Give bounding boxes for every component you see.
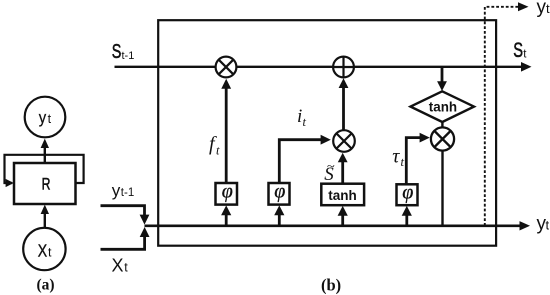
svg-text:t-1: t-1: [121, 187, 134, 199]
svg-text:φ: φ: [274, 181, 285, 203]
multiply node on S line (forget gate): [216, 57, 237, 78]
svg-text:X: X: [38, 242, 48, 261]
svg-text:(a): (a): [37, 277, 55, 294]
svg-text:t: t: [216, 144, 220, 158]
multiply node 2 (input x candidate): [333, 130, 355, 152]
multiply node 3 (output): [431, 127, 454, 150]
wire diamond to multiply3: [441, 122, 443, 128]
wire tau_t arrow from phi3 to multiply3: [406, 138, 420, 184]
svg-text:R: R: [42, 176, 51, 194]
tanh diamond (output squash): [411, 91, 475, 122]
LSTM cell box: [158, 20, 496, 246]
svg-text:t: t: [48, 112, 52, 126]
svg-text:X: X: [112, 256, 124, 276]
wire multiply3 down to output line: [441, 151, 443, 226]
svg-text:t: t: [546, 218, 550, 233]
svg-text:t-1: t-1: [122, 50, 135, 62]
svg-text:y: y: [39, 110, 47, 128]
svg-text:tanh: tanh: [328, 188, 357, 203]
wire arrow bus to phi1: [225, 214, 228, 226]
svg-text:S: S: [112, 40, 122, 63]
wire i_t arrow from phi2 to multiply 2: [279, 140, 321, 183]
svg-text:(b): (b): [321, 276, 341, 295]
svg-text:y: y: [537, 0, 547, 18]
phi box 2 (input gate): [269, 183, 290, 205]
tanh box (candidate): [321, 184, 364, 206]
svg-text:~: ~: [327, 159, 335, 173]
wire S line: [115, 66, 524, 68]
wire arrow bus to phi2: [278, 214, 281, 226]
wire input yt-1: [101, 206, 145, 215]
phi box 1 (forget gate): [216, 183, 238, 205]
feedback loop wire around R: [5, 155, 84, 183]
wire input bus to yt output arrow: [145, 225, 522, 228]
wire arrow tanh box up to multiply2: [341, 161, 344, 184]
wire arrow Xt to R: [44, 212, 46, 228]
wire arrow R to yt: [44, 146, 46, 163]
wire f_t arrow up to multiply: [225, 88, 228, 183]
block R: [14, 163, 76, 204]
svg-text:i: i: [297, 106, 302, 127]
wire arrow multiply2 up to add: [342, 87, 345, 130]
node Xt circle (a): [23, 228, 65, 270]
svg-text:y: y: [112, 181, 121, 200]
wire arrow bus to tanh box: [341, 215, 344, 226]
svg-text:t: t: [546, 1, 550, 16]
svg-text:tanh: tanh: [429, 100, 457, 115]
node yt circle (a): [25, 97, 66, 138]
wire input Xt: [101, 237, 145, 250]
svg-text:S: S: [513, 39, 523, 62]
svg-text:φ: φ: [402, 182, 413, 204]
wire arrow bus to phi3: [405, 215, 408, 226]
svg-text:t: t: [124, 261, 128, 275]
wire dashed recurrence yt to top: [485, 7, 520, 226]
wire arrow S line down into tanh diamond: [441, 67, 444, 83]
svg-text:t: t: [48, 245, 52, 259]
svg-text:t: t: [303, 115, 307, 129]
add node on S line: [333, 57, 354, 78]
svg-text:τ: τ: [392, 146, 400, 168]
svg-text:t: t: [401, 155, 405, 169]
phi box 3 (output gate): [397, 184, 418, 205]
svg-text:φ: φ: [222, 181, 233, 203]
